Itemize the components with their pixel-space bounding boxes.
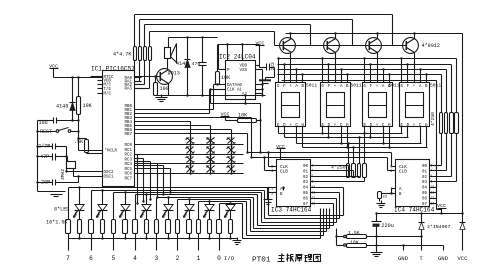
wire Q3 base [311, 25, 370, 46]
svg-text:05: 05 [303, 192, 308, 196]
wire IC3 CLB [263, 156, 276, 170]
wire Q1 emitter up [290, 34, 292, 39]
wire clock line 2 [252, 157, 388, 159]
resistor 1.5K a7 [217, 220, 222, 234]
wire Q4 collector to display [414, 53, 416, 83]
seven-segment display DS2 5011 [321, 83, 362, 129]
svg-text:RC4: RC4 [125, 163, 133, 167]
svg-text:220u: 220u [382, 223, 394, 229]
title glyph tu [314, 255, 321, 262]
title glyph zhu [278, 254, 285, 262]
wire RC fan 0 [135, 155, 139, 205]
wire speaker top rail [169, 36, 218, 47]
svg-text:4: 4 [133, 255, 137, 262]
transistor Q1 9012 [280, 38, 296, 54]
wire I/O line 4 [136, 193, 334, 225]
power flag VCC (mid) [221, 112, 238, 121]
IC3 74HC164 shift register [271, 160, 312, 214]
svg-text:470: 470 [192, 61, 201, 67]
svg-text:RC3: RC3 [125, 158, 133, 162]
resistor R7 10K [335, 235, 443, 247]
wire left rail [37, 121, 39, 192]
wire T sense [336, 229, 338, 237]
resistor network 4*250 (IC3) [331, 164, 367, 178]
svg-text:12: 12 [312, 196, 316, 200]
svg-text:*MCLR: *MCLR [105, 149, 118, 154]
IC1 RA pin stubs [135, 78, 142, 89]
svg-text:04: 04 [303, 187, 308, 191]
wire IC4 CLB [388, 158, 396, 171]
wire IC4 O0 to 250 ohm [430, 134, 442, 166]
svg-text:IC2 24LC04: IC2 24LC04 [219, 54, 256, 61]
wire I/O line 3 [157, 196, 330, 228]
title PT01 [252, 257, 271, 265]
svg-text:2: 2 [176, 255, 180, 262]
switch REST [36, 128, 79, 136]
svg-text:22: 22 [383, 196, 388, 200]
svg-text:05: 05 [422, 192, 427, 196]
capacitor C1 10u [38, 118, 57, 127]
resistor 1.5K a0 [66, 220, 71, 234]
LED D9 [204, 202, 215, 220]
resistor 1.5K a3 [133, 220, 138, 234]
power flag VCC (IC3) [276, 144, 285, 160]
wire RC fan 4 [135, 166, 165, 196]
wire IC4 O2 to 250 ohm [430, 134, 452, 177]
svg-text:RA3: RA3 [125, 88, 133, 92]
ground (IC3 input) [264, 200, 273, 205]
svg-text:4*250: 4*250 [430, 112, 436, 126]
speaker LS1 [165, 44, 177, 63]
capacitor C4 20P [36, 177, 78, 186]
wire GND terminal 2 [438, 246, 449, 263]
wires DS4 top pins [400, 57, 427, 82]
wire IC3 O2 to 250 ohm [311, 177, 360, 178]
resistor 1.5K b4 [166, 220, 171, 234]
wire connector pin 1 [197, 234, 211, 263]
wire Q3 collector to display [377, 53, 379, 83]
wire connector pin 7 [66, 234, 81, 263]
LED D4 [97, 191, 108, 220]
wire CLK branch node [209, 88, 261, 121]
wire IC3 A B pins [268, 187, 285, 200]
svg-text:0: 0 [217, 255, 221, 262]
wire Q5 base [135, 75, 161, 77]
wire matrix row 2 [135, 162, 244, 164]
wire VCC to VDD pin [54, 76, 103, 78]
resistor 1.5K b0 [78, 220, 82, 234]
svg-text:OSC2: OSC2 [104, 171, 114, 175]
wire segment bus bottom 0 [279, 132, 403, 163]
LED D3 [74, 188, 85, 220]
wire connector pin 3 [155, 234, 170, 263]
resistor R3 100 [154, 77, 169, 96]
LED D10 [225, 204, 236, 220]
wire Q3 emitter up [377, 34, 379, 39]
wire VCC right drop [462, 34, 464, 214]
wires DS2 bottom pins [321, 127, 348, 149]
svg-text:5011: 5011 [306, 83, 317, 89]
crystal Y1 4MHZ [60, 157, 76, 181]
wire I/O line 5 [114, 191, 337, 222]
svg-text:00: 00 [422, 165, 427, 169]
svg-text:3: 3 [155, 255, 159, 262]
svg-text:5: 5 [112, 255, 116, 262]
IC4 74HC164 shift register [394, 160, 435, 214]
wire IC4 A pin [390, 189, 395, 195]
wire RC fan 3 [135, 164, 159, 199]
svg-text:CLB: CLB [280, 170, 288, 175]
label T terminal [419, 255, 423, 262]
wire segment bus bottom 2 [297, 142, 422, 163]
wires DS4 bottom pins [402, 127, 427, 148]
wire IC2 CLK to RB2 [135, 90, 226, 114]
svg-text:03: 03 [422, 181, 427, 185]
wire bus RA0 to transistor base [135, 15, 393, 47]
diode pair matrix r1c1 [186, 137, 195, 144]
resistor 1.5K a1 [89, 220, 94, 234]
svg-text:OSC1: OSC1 [104, 176, 114, 180]
wire OSC1 [74, 175, 103, 177]
LED D7 [163, 198, 174, 220]
resistor 1.5K a5 [176, 220, 180, 234]
wire IC2 P pin [219, 45, 226, 70]
svg-text:8*LED: 8*LED [54, 207, 69, 213]
diode D2 4148 [176, 38, 191, 96]
LED D5 [120, 193, 131, 220]
svg-text:06: 06 [422, 197, 427, 201]
svg-text:01: 01 [303, 170, 308, 174]
seven-segment display DS4 5011 [400, 83, 442, 129]
diode pair matrix r4c2 [207, 165, 215, 173]
svg-text:4*4.7K: 4*4.7K [113, 52, 132, 58]
ground (oscillator) [38, 192, 66, 197]
resistor R5 10K (mid) [238, 113, 262, 154]
svg-text:9013: 9013 [168, 71, 180, 77]
wire matrix row 0 [135, 143, 244, 145]
svg-text:RC6: RC6 [125, 173, 133, 177]
wire segment bus top 1 [278, 65, 452, 113]
svg-text:10K: 10K [238, 113, 248, 119]
svg-text:04: 04 [422, 187, 427, 191]
wire MCLR [77, 121, 102, 151]
label 16*1.5K [46, 220, 68, 226]
wire IC4 O3 to 250 ohm [430, 134, 457, 182]
wire IC3 O0 to 250 ohm [311, 166, 349, 178]
LED D6 [141, 195, 152, 220]
svg-text:T/E: T/E [104, 87, 112, 92]
wire connector pin 6 [89, 234, 104, 263]
wire Q2 collector to display [335, 53, 337, 83]
wire IC2 VDD stub [256, 65, 260, 67]
svg-text:PT01: PT01 [252, 257, 271, 265]
wire RC fan 2 [135, 162, 152, 201]
resistor R6 1.5K [337, 230, 422, 239]
ground (220u) [371, 250, 383, 257]
resistor network 4*4.7K [113, 47, 152, 61]
wire clock line 1 [248, 152, 392, 154]
power flag VCC (IC4 area) [437, 203, 446, 215]
wire LED bottom rail [69, 238, 238, 240]
svg-text:CLB: CLB [399, 170, 407, 175]
wire Q4 base [275, 32, 407, 46]
transistor Q3 9012 [366, 38, 382, 54]
svg-text:01: 01 [422, 170, 427, 174]
IC4 pin labels [390, 163, 434, 207]
wire IC2 right pins [256, 70, 264, 96]
svg-text:VCC: VCC [457, 255, 468, 262]
svg-text:10K: 10K [221, 75, 231, 81]
svg-text:M/C: M/C [104, 82, 112, 87]
wire RB5 to matrix column B [135, 126, 211, 174]
svg-text:1.5K: 1.5K [348, 230, 360, 236]
svg-text:06: 06 [303, 197, 308, 201]
svg-text:DATAA0: DATAA0 [227, 84, 242, 88]
svg-text:02: 02 [303, 176, 308, 180]
label I/O [224, 255, 235, 262]
svg-text:RC0: RC0 [125, 144, 133, 148]
wire matrix row 1 [135, 153, 244, 155]
svg-text:100: 100 [160, 86, 169, 92]
svg-text:M/C: M/C [104, 91, 112, 96]
svg-text:IC4 74HC164: IC4 74HC164 [394, 207, 435, 214]
IC3 pin labels [271, 163, 315, 207]
capacitor C3 47P [36, 154, 67, 161]
wire RB4 to matrix column A [135, 122, 191, 174]
diode pair matrix r3c2 [207, 156, 215, 163]
wire RC fan 1 [135, 159, 145, 203]
label 8*LED [54, 207, 69, 213]
svg-text:5011: 5011 [430, 83, 441, 89]
diode pair matrix r4c1 [186, 165, 195, 173]
svg-text:07: 07 [303, 203, 308, 207]
label 2*IN4007 [427, 224, 450, 230]
transistor Q2 9012 [324, 38, 340, 54]
svg-text:00: 00 [303, 165, 308, 169]
capacitor C8 220u [372, 214, 394, 251]
wire segment bus bottom 1 [285, 136, 409, 163]
title glyph ban [287, 254, 294, 262]
wire connector pin 4 [133, 234, 148, 263]
wire IC4 O1 to 250 ohm [430, 134, 447, 171]
seven-segment display DS3 5011 [363, 83, 400, 129]
svg-text:5011: 5011 [351, 83, 362, 89]
svg-text:12: 12 [431, 196, 435, 200]
diode pair matrix r1c2 [207, 137, 215, 144]
diode pair matrix r2c2 [207, 146, 215, 154]
svg-text:RC7: RC7 [125, 177, 133, 181]
wires DS1 bottom pins [279, 127, 303, 148]
ground (Q5) [156, 95, 168, 102]
wire bottom rail [375, 212, 463, 214]
svg-text:GND: GND [438, 255, 449, 262]
wire OSC2 [65, 147, 102, 173]
wire IC3 O3 to 250 ohm [311, 178, 365, 182]
IC1 left pin stubs [91, 77, 103, 94]
power flag VCC (reset) [49, 63, 58, 77]
wire bus RA2 to transistor base [145, 25, 311, 47]
wire RA3 to 4.7K [135, 61, 150, 89]
svg-text:IC3 74HC164: IC3 74HC164 [271, 207, 312, 214]
diode D10 IN4007 [419, 214, 425, 251]
diode pair matrix r4c3 [227, 165, 236, 173]
wires DS3 top pins [363, 57, 390, 82]
svg-text:GND: GND [398, 255, 409, 262]
resistor network 4*250 (IC4) [430, 112, 458, 134]
wire segment bus top 0 [278, 59, 457, 113]
power flag VCC (IC2) [256, 41, 265, 68]
IC2 24LC04 EEPROM [219, 54, 256, 100]
diode pair matrix r3c3 [227, 156, 236, 163]
resistor 1.5K a4 [155, 220, 159, 234]
svg-text:2*IN4007: 2*IN4007 [427, 224, 450, 230]
svg-text:7: 7 [66, 255, 70, 262]
label VCC terminal [457, 255, 468, 262]
transistor Q5 9013 [157, 63, 180, 85]
wire IC3 CLK [267, 151, 276, 166]
wire Q1 collector to display [290, 53, 292, 83]
diode D11 IN4007 [460, 214, 466, 251]
svg-text:4*9012: 4*9012 [422, 43, 440, 49]
wire matrix row 3 [135, 172, 244, 174]
wire RB6 to matrix column C [135, 130, 232, 174]
svg-text:RC5: RC5 [125, 168, 133, 172]
svg-text:IC1 PIC16C57: IC1 PIC16C57 [91, 66, 135, 73]
wire IC3 O1 to 250 ohm [311, 171, 354, 178]
resistor R8 22 (IC4 input) [378, 192, 396, 202]
LED D8 [184, 200, 195, 220]
svg-text:4148: 4148 [56, 104, 68, 110]
wire RA1 to 4.7K [135, 61, 140, 82]
wire Q2 emitter up [335, 34, 337, 39]
wire RB7 to clock line [135, 134, 249, 154]
resistor 1.5K b7 [229, 220, 233, 234]
resistor 1.5K b5 [187, 220, 192, 234]
IC1 PIC16C57 microcontroller [91, 66, 135, 187]
wire I/O line 6 [92, 189, 340, 219]
svg-text:RC1: RC1 [125, 149, 133, 153]
wire IC4 CLK [392, 153, 396, 167]
svg-text:1: 1 [197, 255, 201, 262]
resistor R4 10K (pullup) [216, 45, 232, 86]
svg-text:02: 02 [422, 176, 427, 180]
svg-text:.5K: .5K [74, 139, 84, 145]
capacitor C5 470 [192, 38, 207, 96]
wires DS1 top pins [277, 57, 303, 82]
svg-text:VSS: VSS [240, 69, 248, 73]
svg-text:5011: 5011 [389, 83, 400, 89]
wire segment bus top 3 [278, 75, 442, 113]
wire Q1 base [283, 15, 393, 46]
wire RA2 to 4.7K [135, 61, 145, 85]
diode pair matrix r2c1 [186, 146, 195, 154]
wire connector pin 0 [217, 234, 232, 263]
svg-text:I/O: I/O [224, 255, 235, 262]
wire Q4 emitter up [414, 34, 416, 39]
wire connector pin 2 [176, 234, 191, 263]
svg-text:03: 03 [303, 181, 308, 185]
wire emitter rail VCC [286, 32, 463, 34]
resistor 1.5K a2 [112, 220, 116, 234]
wire I/O line 7 [69, 186, 344, 219]
resistor 1.5K b6 [208, 220, 212, 234]
wires DS3 bottom pins [363, 127, 390, 149]
svg-text:6: 6 [89, 255, 93, 262]
wire I/O line 1 [199, 200, 324, 235]
wire reset node [57, 119, 80, 121]
seven-segment display DS1 5011 [276, 83, 318, 129]
resistor 1.5K b2 [123, 220, 128, 234]
title glyph yuan [296, 255, 303, 262]
wire bus RA3 to transistor base [150, 32, 275, 47]
resistor R2 .5K [74, 139, 103, 154]
wire IC2 top rail [218, 43, 260, 60]
wire IC4 O4-O7 stubs [430, 188, 437, 204]
wire I/O line 0 [220, 202, 321, 238]
wires DS2 top pins [321, 57, 348, 82]
transistor Q4 9012 [403, 38, 440, 54]
svg-text:RC2: RC2 [125, 154, 133, 158]
IC1 pin labels [104, 76, 133, 182]
capacitor C2 27P [36, 143, 66, 149]
diode pair matrix r2c3 [227, 146, 236, 154]
diode D1 4148 (reset) [56, 78, 76, 121]
wire RC fan 5 [135, 169, 172, 194]
wire bus RA1 to transistor base [140, 20, 353, 47]
svg-text:RB7: RB7 [125, 133, 133, 137]
capacitor C6 223 [260, 62, 276, 71]
wire Q5 emitter to ground [168, 84, 170, 96]
wire connector pin 5 [112, 234, 127, 263]
wire GND terminal 1 [398, 244, 409, 262]
ground (C6) [259, 68, 275, 84]
svg-text:4MHZ: 4MHZ [60, 169, 66, 180]
wire segment bus top 2 [278, 70, 447, 113]
resistor R1 10K (reset) [77, 78, 93, 121]
wire Q2 base [328, 20, 353, 46]
wire aux line [282, 81, 442, 210]
title glyph li [305, 255, 313, 262]
diode pair matrix r1c3 [227, 137, 236, 144]
svg-text:10K: 10K [83, 103, 93, 109]
svg-text:CLK A1: CLK A1 [227, 89, 242, 93]
svg-text:2: 2 [271, 193, 273, 197]
svg-text:VDD: VDD [240, 65, 248, 69]
resistor 1.5K b3 [145, 220, 149, 234]
wire IC2 DATA to RB1 [135, 85, 226, 110]
ground (IC4 input) [377, 201, 386, 208]
wire I/O line 2 [178, 198, 327, 231]
ground (LED rail) [233, 238, 242, 245]
wire RB3 to clock line 2 [135, 118, 253, 159]
wire segment bus bottom 3 [303, 146, 428, 163]
IC2 pin labels [227, 65, 248, 98]
svg-text:10K: 10K [350, 240, 359, 246]
resistor 1.5K b1 [101, 220, 105, 234]
wire RA0 to 4.7K [134, 61, 136, 78]
wire ground rail [156, 94, 266, 96]
resistor 1.5K a6 [197, 220, 201, 234]
diode pair matrix r3c1 [186, 156, 195, 163]
svg-text:07: 07 [422, 203, 427, 207]
